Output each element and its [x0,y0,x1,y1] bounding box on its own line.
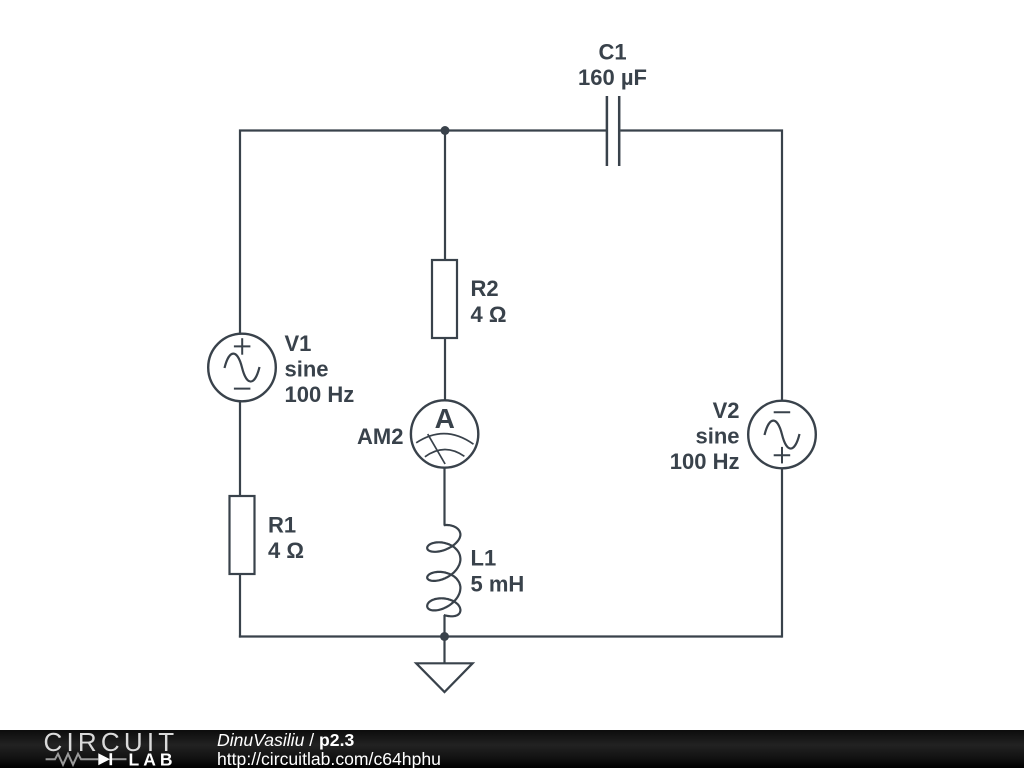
svg-text:AM2: AM2 [357,424,403,449]
svg-text:L1: L1 [471,546,497,571]
voltage source V1 [208,334,276,402]
svg-text:R1: R1 [268,512,296,537]
svg-text:160 µF: 160 µF [578,65,647,90]
svg-text:sine: sine [285,356,329,381]
svg-text:100 Hz: 100 Hz [670,449,740,474]
logo resistor zigzag [46,754,127,765]
svg-text:V2: V2 [713,398,740,423]
svg-text:LAB: LAB [129,750,177,768]
svg-text:sine: sine [695,424,739,449]
wire R1 to bottom rail [239,574,241,638]
svg-text:C1: C1 [598,40,626,65]
wire node to R2 [444,131,446,261]
capacitor C1 [607,96,619,166]
svg-text:A: A [435,403,455,434]
svg-text:5 mH: 5 mH [471,572,525,597]
svg-text:R2: R2 [471,276,499,301]
resistor R2 [432,260,457,338]
wire AM2 to L1 [443,468,445,526]
wire L1 to bottom rail [443,615,445,637]
ammeter AM2 [411,400,478,467]
wire ground stub [443,637,445,664]
svg-text:4 Ω: 4 Ω [471,302,507,327]
wire bottom rail [239,635,782,637]
wire V2 to bottom rail [781,468,783,637]
logo diode [98,753,110,765]
resistor R1 [230,496,255,574]
ground [416,663,472,692]
voltage source V2 [748,401,816,469]
attribution [217,731,441,768]
svg-text:100 Hz: 100 Hz [285,382,355,407]
node junction bottom [440,632,449,641]
svg-text:4 Ω: 4 Ω [268,538,304,563]
inductor L1 [427,525,460,616]
wire V1 to R1 [239,401,241,496]
CircuitLab logo [0,730,210,768]
svg-text:V1: V1 [285,331,312,356]
node junction top [441,126,450,135]
wire top-left rail [240,131,606,335]
wire top-right rail [621,131,783,401]
wire R2 to AM2 [444,338,446,401]
footer bar [0,730,1024,768]
